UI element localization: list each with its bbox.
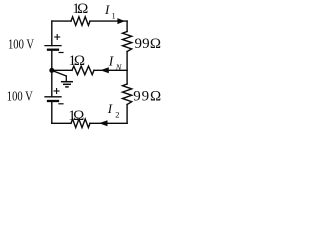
svg-text:1Ω: 1Ω	[69, 53, 86, 69]
battery V2 minus sign	[58, 103, 63, 105]
svg-text:I: I	[107, 101, 113, 116]
resistor R4 1ohm bottom zigzag	[71, 119, 90, 128]
battery V2 plus sign	[54, 88, 60, 94]
svg-text:100 V: 100 V	[8, 37, 34, 52]
resistor R2 99ohm top zigzag	[123, 32, 132, 52]
battery V1 long positive plate	[45, 45, 61, 47]
svg-text:99Ω: 99Ω	[133, 88, 161, 104]
wire left between batteries	[51, 50, 53, 97]
ground symbol bars	[61, 82, 73, 87]
battery V1 plus sign	[54, 34, 60, 40]
wire middle branch right segment	[94, 69, 127, 71]
wire right middle segment	[126, 52, 128, 85]
svg-text:1Ω: 1Ω	[68, 108, 84, 124]
svg-text:1: 1	[112, 11, 116, 20]
resistor R5 1ohm middle zigzag	[72, 66, 94, 75]
wire bottom-left segment	[52, 122, 71, 124]
wire ground diagonal from node A	[52, 70, 67, 76]
wire middle branch left segment	[52, 69, 72, 71]
current arrow IN head (pointing left)	[100, 67, 109, 73]
svg-text:2: 2	[115, 110, 119, 120]
battery V1 minus sign	[59, 52, 64, 54]
wire left top lead to battery V1	[51, 21, 53, 45]
wire bottom-right segment	[90, 122, 127, 124]
svg-text:1Ω: 1Ω	[72, 1, 88, 17]
node A junction dot	[49, 68, 54, 73]
ground stem	[65, 76, 67, 82]
svg-text:I: I	[108, 53, 115, 68]
svg-text:I: I	[104, 2, 110, 17]
svg-text:100 V: 100 V	[7, 90, 33, 105]
wire right upper lead	[126, 21, 128, 31]
battery V2 long positive plate	[45, 96, 61, 98]
current arrow I2 head (pointing left)	[99, 120, 108, 126]
battery V1 short negative plate	[48, 49, 58, 51]
resistor R3 99ohm bottom zigzag	[123, 84, 132, 105]
battery V2 short negative plate	[48, 100, 58, 102]
resistor R1 1ohm top zigzag	[71, 17, 90, 26]
wire right lower lead	[126, 105, 128, 124]
wire top-left segment	[52, 20, 71, 22]
current arrow I1 head (pointing right)	[117, 18, 125, 24]
svg-text:99Ω: 99Ω	[135, 36, 162, 52]
wire top-right segment	[90, 20, 127, 22]
wire left bottom lead	[51, 101, 53, 123]
